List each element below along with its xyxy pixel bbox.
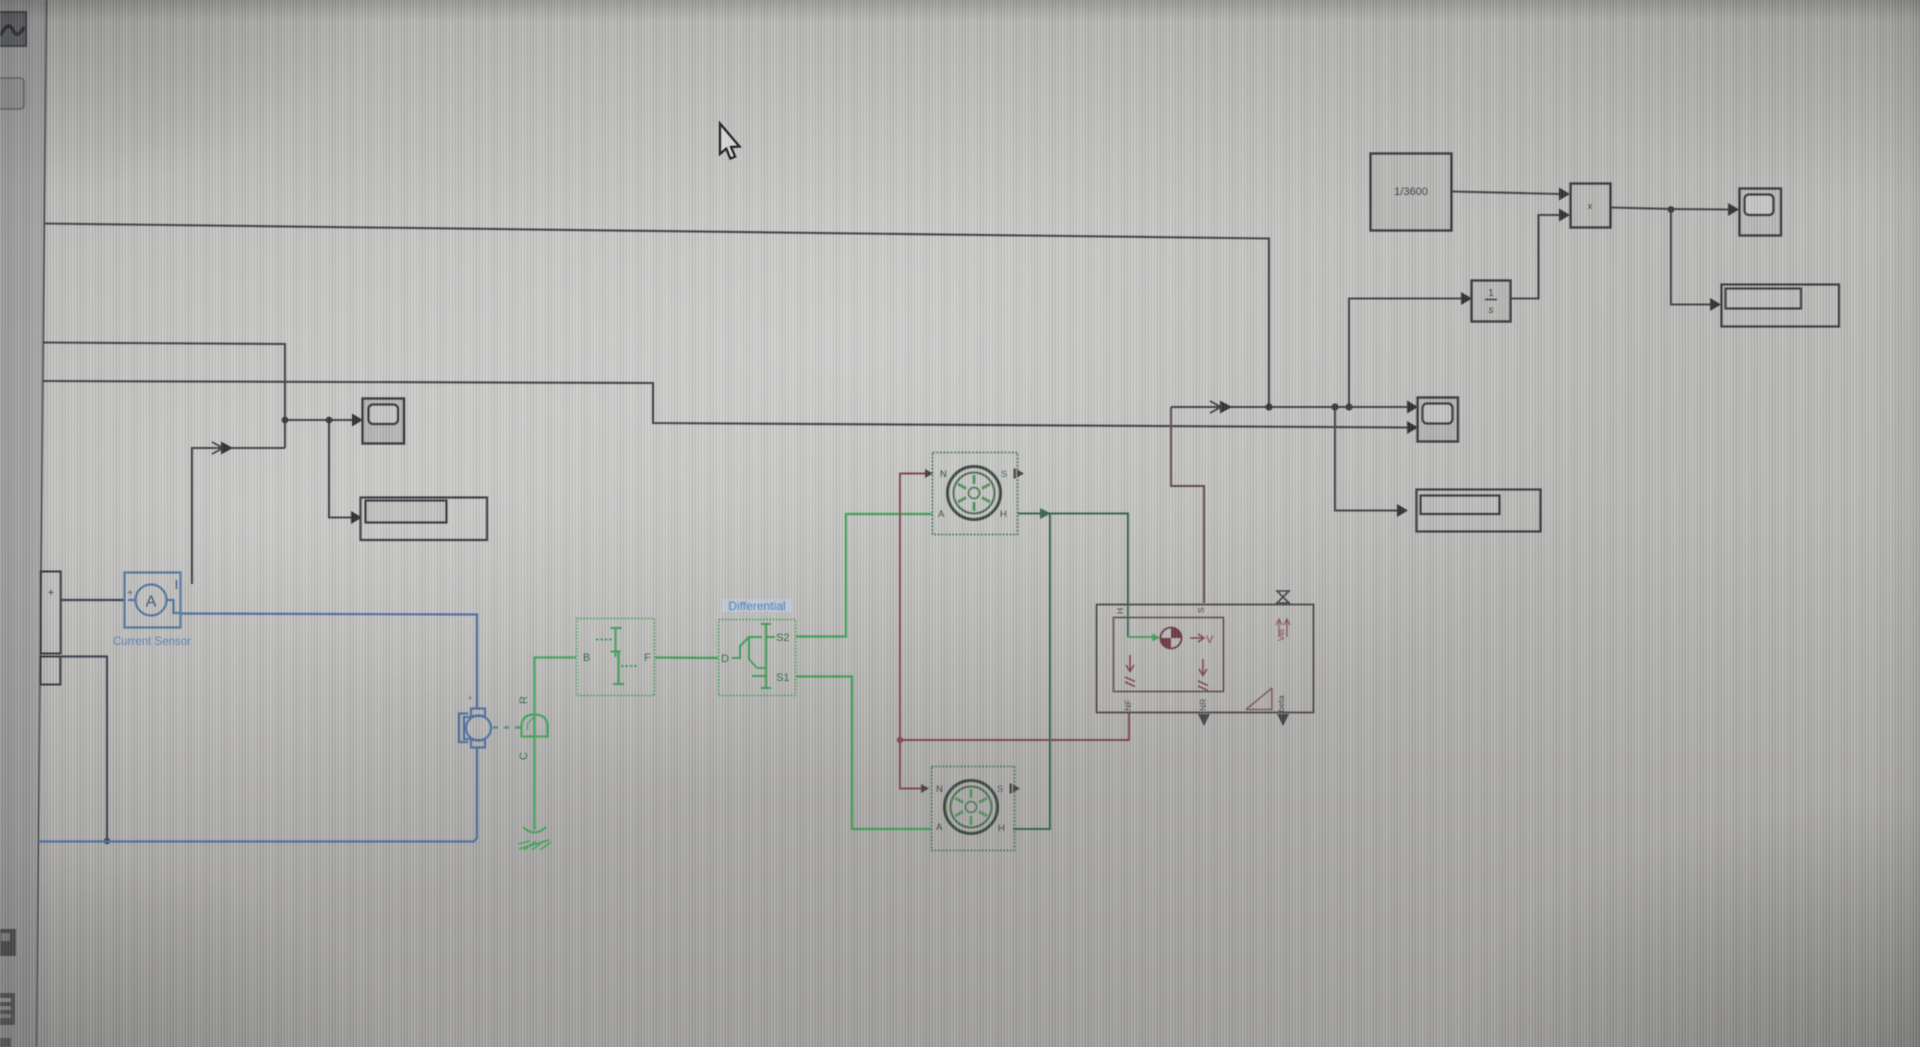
arrowhead into scope2 top xyxy=(1407,401,1418,414)
arrowhead into scope1 xyxy=(352,414,363,427)
scope Scope3 xyxy=(1740,189,1782,236)
wire: front tire N to normal-force net (maroon) xyxy=(900,474,925,789)
vehicle body port label beta with incline icon xyxy=(1246,688,1286,712)
current sensor block xyxy=(125,573,181,628)
display Display1 xyxy=(361,498,488,541)
svg-text:+: + xyxy=(48,587,54,599)
svg-text:1/3600: 1/3600 xyxy=(1394,186,1428,198)
scope Scope1 xyxy=(363,399,405,444)
svg-text:S1: S1 xyxy=(776,672,789,684)
arrowhead into product upper xyxy=(1559,188,1570,201)
vehicle beta unconnected port marker xyxy=(1277,714,1289,726)
svg-text:N: N xyxy=(936,784,943,795)
vehicle body NF internal down arrow xyxy=(1125,655,1135,687)
wire: front tire H to hub net (dark green) xyxy=(1018,514,1128,605)
svg-text:s: s xyxy=(1488,304,1494,316)
wire: current sensor out to motor (blue) xyxy=(181,614,477,710)
open chevron before speed bus arrow (1212,407) xyxy=(1210,401,1221,413)
vehicle body ->V mark xyxy=(1190,634,1214,646)
arrowhead into node at (230,448) with open chevron xyxy=(221,442,233,455)
wire: battery + to current sensor (dark navy) xyxy=(60,599,124,601)
junction node (1349,407) xyxy=(1345,403,1352,410)
svg-text:C: C xyxy=(518,752,530,760)
svg-text:H: H xyxy=(998,823,1005,834)
junction node (1335,407) xyxy=(1331,403,1338,410)
svg-text:x: x xyxy=(1588,201,1593,212)
svg-text:D: D xyxy=(721,653,729,665)
svg-text:+: + xyxy=(127,588,133,599)
svg-text:S: S xyxy=(1001,469,1007,480)
svg-text:A: A xyxy=(936,822,943,833)
left toolbar panel xyxy=(0,0,47,1047)
wire: gain output to product upper input xyxy=(1452,192,1560,195)
DC motor xyxy=(459,709,491,748)
tire rear port S (unconnected stub) xyxy=(997,784,1020,796)
junction node (107,841) xyxy=(104,838,110,844)
vehicle body NR internal down arrow xyxy=(1198,659,1208,691)
wire: branch down from node (1335,407) to display2 xyxy=(1335,407,1398,511)
junction node (1269,407) xyxy=(1265,403,1272,410)
rotational reference ground xyxy=(518,827,551,850)
rotational element (house) xyxy=(522,715,548,737)
scope Scope2 xyxy=(1418,398,1459,442)
wire: differential S1 to rear tire axle (green) xyxy=(796,677,932,830)
vehicle body CG symbol xyxy=(1161,628,1182,649)
display Display2 xyxy=(1417,490,1541,532)
svg-text:S: S xyxy=(997,784,1003,795)
svg-text:H: H xyxy=(1115,608,1125,614)
tire front port S (unconnected stub) xyxy=(1001,469,1024,481)
vehicle body port label Vel with up arrows xyxy=(1276,619,1290,641)
gearbox block (Simple Gear) xyxy=(577,619,655,696)
integrator block 1/s xyxy=(1472,281,1511,322)
wire: motor bottom to return loop (blue) xyxy=(39,747,478,842)
junction node (329,420) xyxy=(326,417,333,424)
product block x xyxy=(1571,184,1611,228)
svg-text:A: A xyxy=(938,509,945,520)
wire: vehicle speed S up from body to bus y=407 xyxy=(1171,407,1204,603)
gain block 1/3600 xyxy=(1371,154,1452,231)
vehicle body H internal continuation xyxy=(1127,604,1129,637)
toolbar icon rounded button xyxy=(0,78,24,109)
wire: current-sensor I signal up then right to node x=285 xyxy=(192,448,285,584)
arrowhead into product lower xyxy=(1559,209,1570,222)
svg-text:NF: NF xyxy=(1123,700,1133,711)
wire: top long net from canvas edge to x=1269 then down to speed bus xyxy=(45,224,1270,407)
svg-text:B: B xyxy=(583,652,590,664)
wire: branch from node (285,420) to scope1 xyxy=(285,419,352,421)
battery block lower terminal (clipped at canvas edge) xyxy=(40,657,60,685)
vehicle body block xyxy=(1097,605,1314,713)
differential block xyxy=(719,620,796,696)
wire: current sensor I output up (dark) xyxy=(191,570,193,584)
wire: house C down to rotational ground (green) xyxy=(533,737,535,831)
svg-text:Differential: Differential xyxy=(728,599,785,613)
label Differential xyxy=(722,599,792,613)
toolbar icon bottom-1 xyxy=(0,929,16,956)
junction node (900,740) xyxy=(897,737,903,743)
svg-text:R: R xyxy=(518,696,530,704)
junction node (1669,208) xyxy=(1668,206,1675,213)
svg-text:F: F xyxy=(644,652,651,664)
svg-text:S: S xyxy=(1196,607,1206,613)
svg-text:A: A xyxy=(146,594,157,611)
svg-text:Current Sensor: Current Sensor xyxy=(113,636,191,648)
arrowhead on hub net at (1046,513) xyxy=(1040,508,1051,519)
wire: second net from canvas edge to x=285 xyxy=(43,343,285,449)
wire: branch down from node (329,420) to display1 xyxy=(329,420,351,518)
wire: rear tire H up to hub net (dark green) xyxy=(1013,514,1050,830)
wire: branch up from node (1349,407) to integrator input xyxy=(1349,299,1462,408)
vehicle body internal green arrow to CG xyxy=(1128,636,1152,638)
arrowhead into scope2 bottom xyxy=(1407,421,1418,434)
toolbar icon bottom-3 (clipped) xyxy=(0,1038,11,1047)
tire block rear xyxy=(932,767,1015,851)
arrowhead into scope3 xyxy=(1728,203,1739,216)
svg-text:Vel: Vel xyxy=(1276,629,1286,641)
vehicle Vel unconnected port marker xyxy=(1277,591,1289,603)
display Display3 xyxy=(1722,285,1840,327)
svg-text:S2: S2 xyxy=(776,632,789,644)
arrowhead on speed bus at (1230,407) xyxy=(1220,401,1232,414)
wire: house R up and right to gearbox B (green) xyxy=(535,658,577,714)
wire: branch down from node (1669,208) to display3 xyxy=(1671,210,1711,305)
mouse cursor xyxy=(720,124,740,159)
arrowhead into integrator xyxy=(1461,292,1472,305)
wire: normal-force net to vehicle NF (maroon) xyxy=(900,713,1129,740)
open chevron before node arrow (215,448) xyxy=(212,442,223,454)
toolbar icon scope-wave xyxy=(0,12,26,46)
svg-text:beta: beta xyxy=(1276,695,1286,712)
wire: gearbox F to differential D (green) xyxy=(655,656,718,659)
svg-text:NR: NR xyxy=(1198,699,1208,711)
battery block upper terminal (clipped at canvas edge) xyxy=(41,572,61,654)
panel/canvas divider line xyxy=(37,0,47,1047)
wire: product output to scope3 and branch node xyxy=(1611,208,1729,210)
junction node (285,420) xyxy=(282,417,289,424)
svg-text:1: 1 xyxy=(1488,287,1494,299)
arrowhead into display1 xyxy=(351,511,362,524)
svg-text:H: H xyxy=(1000,509,1007,520)
arrowhead into display3 xyxy=(1710,298,1721,311)
arrowhead into display2 xyxy=(1397,504,1408,517)
tire block front xyxy=(933,453,1018,535)
wire: battery - terminal to bottom loop xyxy=(60,657,107,842)
svg-text:N: N xyxy=(940,469,947,480)
svg-text:V: V xyxy=(1206,634,1214,646)
wire: speed bus to scope2 top input xyxy=(1171,406,1408,408)
wire: integrator output up to product lower input xyxy=(1511,215,1560,299)
wire: third long net with jog at x=653 ending at scope2 lower input xyxy=(43,381,1408,428)
tire rear port N xyxy=(921,784,943,795)
wire: differential S2 to front tire axle (green) xyxy=(796,514,932,637)
vehicle NR unconnected port marker xyxy=(1198,714,1210,726)
toolbar icon bottom-2 xyxy=(0,993,15,1025)
tire front port N xyxy=(925,469,947,480)
svg-text:+: + xyxy=(467,693,472,703)
dashed shaft link motor R to wheel-axle element xyxy=(493,726,521,728)
